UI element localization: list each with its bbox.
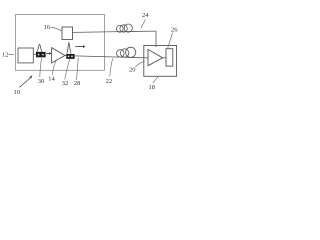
leader 20 (135, 61, 144, 67)
arrow into amplifier 14 (46, 53, 49, 55)
propagation arrow (75, 46, 83, 48)
detector rect 26 (166, 49, 173, 66)
wire: drop into receiver (155, 31, 157, 47)
svg-text:10: 10 (14, 89, 21, 96)
leader 32 (65, 59, 70, 79)
modulator 30 (dark box) (36, 52, 46, 57)
svg-text:12: 12 (2, 52, 9, 59)
receiver box 18 (144, 46, 177, 77)
leader 22 (110, 58, 113, 76)
box 12 (source) (18, 48, 33, 63)
svg-text:20: 20 (129, 67, 136, 74)
leader 10 with arrow (20, 78, 31, 88)
leader dash for 12 (8, 54, 14, 56)
pulse spike above 30 (37, 44, 43, 52)
wire: upper fiber span from 16 (73, 31, 157, 32)
fiber coil 24 (116, 25, 123, 32)
wire box12 to modulator 30 (33, 53, 36, 55)
leader 28 (77, 58, 79, 80)
svg-text:24: 24 (142, 12, 149, 19)
leader 18 (153, 77, 158, 84)
fiber coil 22 (117, 50, 125, 58)
wire tri to detector (163, 57, 166, 59)
leader 26 (168, 33, 173, 49)
svg-text:30: 30 (38, 78, 45, 85)
box 16 (pump source) (62, 27, 73, 40)
leader 24 (141, 20, 145, 28)
leader 30 (40, 58, 42, 77)
svg-text:16: 16 (44, 24, 51, 31)
leader 16 (50, 27, 61, 31)
pulse spike 32 (67, 43, 72, 54)
wire triangle to modulator 32 (65, 54, 66, 56)
modulator 32 (dark box) (66, 54, 74, 59)
wire: lower fiber span (75, 56, 148, 58)
leader 14 (53, 59, 57, 75)
svg-text:26: 26 (171, 26, 178, 33)
svg-text:18: 18 (149, 84, 156, 91)
amplifier triangle 14 (52, 48, 65, 63)
amplifier triangle 20 (148, 49, 163, 65)
svg-text:14: 14 (48, 75, 55, 82)
svg-text:28: 28 (74, 80, 81, 87)
svg-text:22: 22 (106, 78, 113, 85)
svg-text:32: 32 (62, 80, 68, 87)
outer transmitter box 10 (15, 15, 104, 71)
